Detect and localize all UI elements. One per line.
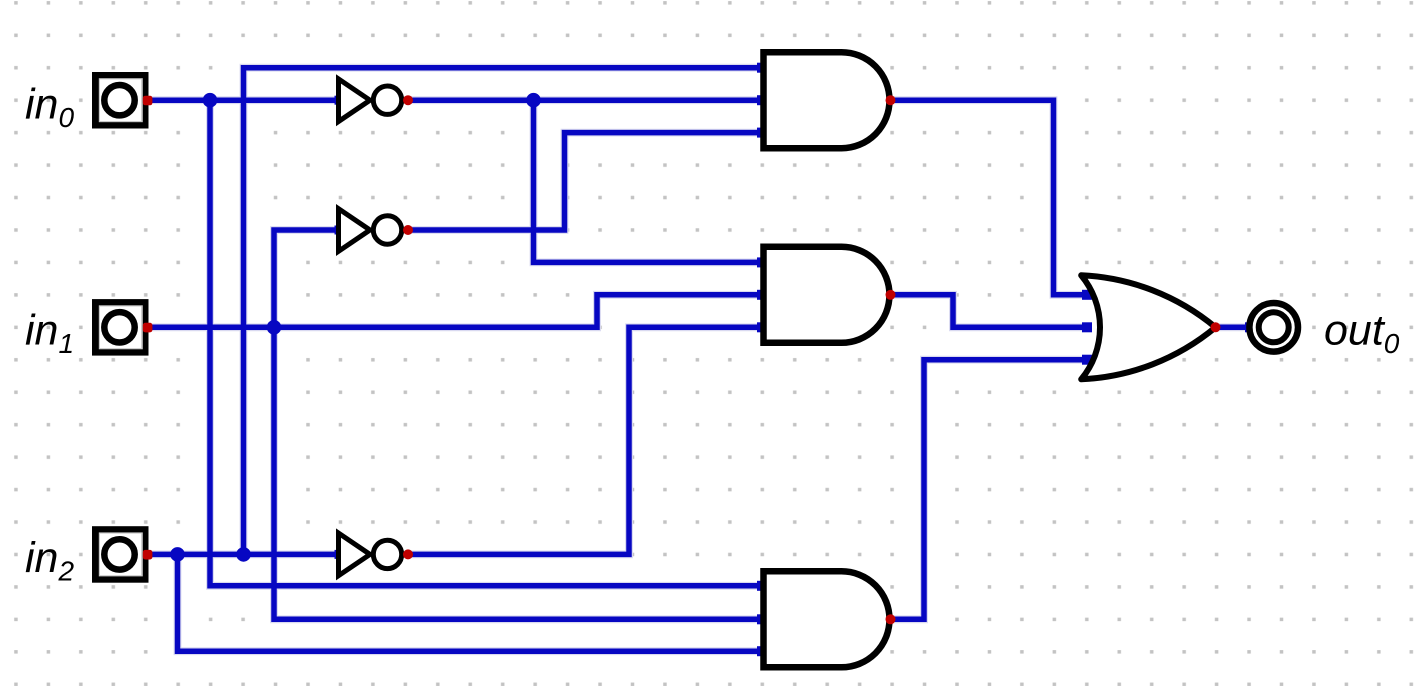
wire in1 to AND2 middle input	[147, 295, 762, 328]
pin dot in0	[143, 96, 153, 106]
input nub out0 pin	[1245, 322, 1255, 332]
NOT gate U2 bubble	[373, 216, 401, 244]
input pin in2 square	[96, 530, 146, 580]
input pin in2 circle	[104, 539, 134, 569]
input nubs AND2	[757, 257, 767, 332]
NOT gate U3 triangle	[339, 533, 371, 576]
wire halos	[147, 68, 1250, 652]
NOT gate U2 triangle	[339, 209, 371, 252]
output pin out0 outer circle	[1249, 303, 1298, 352]
input pin in1 square	[96, 303, 146, 353]
wire AND1 output to OR top input	[891, 100, 1088, 295]
wire AND3 output to OR bottom input	[891, 360, 1088, 620]
wire NOT1 output branch down to AND2 top input	[534, 100, 763, 262]
wire NOT2 output up to AND1 bottom input	[406, 133, 761, 230]
input pin in0 circle	[104, 85, 134, 115]
input nubs AND3	[757, 581, 767, 656]
wire in2 to NOT3 input	[147, 552, 338, 558]
input nubs OR1	[1082, 290, 1092, 365]
AND gate U4	[764, 52, 890, 148]
wire AND2 output to OR middle input	[891, 295, 1088, 328]
wire in2 up to AND1 top input	[244, 68, 762, 555]
output dot NOT1	[403, 95, 413, 105]
wire in0 to NOT1 input	[147, 97, 338, 103]
junction NOT1 output split	[526, 93, 541, 108]
output dot AND1	[886, 95, 896, 105]
wire OR output to out0 pin	[1215, 325, 1250, 331]
input nub NOT1	[335, 96, 344, 105]
input nub NOT3	[335, 550, 344, 559]
wire in2 branch down to AND3 bottom input	[178, 554, 762, 651]
input pin in0 square	[96, 76, 146, 126]
output dot NOT3	[403, 549, 413, 559]
pin dot in1	[143, 323, 153, 333]
NOT gate U1 triangle	[339, 79, 371, 122]
wire in1 branch down to AND3 middle input	[274, 327, 761, 619]
junction in1 split	[267, 320, 282, 335]
OR gate U7	[1081, 275, 1215, 379]
pin in2 inner halo	[99, 533, 142, 576]
wire NOT1 output to AND1 middle input	[406, 97, 761, 103]
output dot AND2	[886, 290, 896, 300]
AND gate U5	[764, 247, 890, 343]
wire NOT3 output up to AND2 bottom input	[406, 327, 762, 554]
AND gate U6	[764, 571, 890, 667]
output dot AND3	[886, 614, 896, 624]
junction in2 split B	[236, 547, 251, 562]
junction in0 split	[203, 93, 218, 108]
pin dot in2	[143, 550, 153, 560]
output dot OR1	[1211, 322, 1221, 332]
NOT gate U1 bubble	[373, 86, 401, 114]
NOT gate U3 bubble	[373, 540, 401, 568]
wire in0 branch down to AND3 top input	[210, 100, 761, 586]
wire in1 to NOT2 input	[274, 230, 338, 327]
pin in1 inner halo	[99, 306, 142, 349]
input nub NOT2	[335, 226, 344, 235]
input pin in1 circle	[104, 312, 134, 342]
pin in0 inner halo	[99, 79, 142, 122]
junction in2 split A	[170, 547, 185, 562]
output dot NOT2	[403, 225, 413, 235]
input nubs AND1	[757, 63, 767, 138]
output pin out0 inner circle	[1259, 312, 1289, 342]
